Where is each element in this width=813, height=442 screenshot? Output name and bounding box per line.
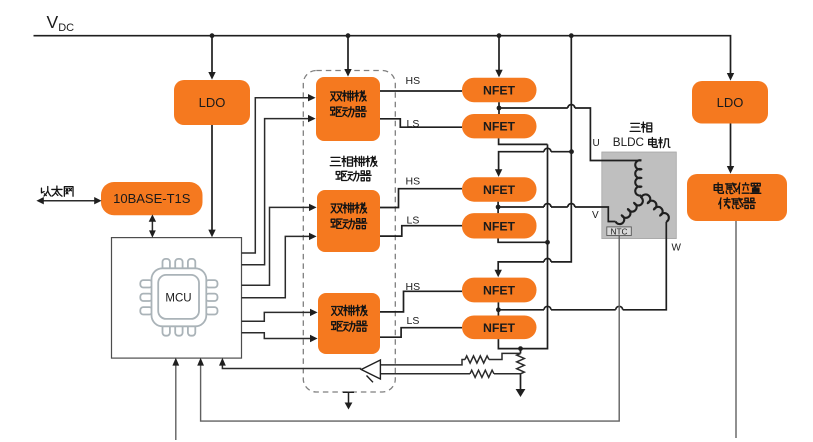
node bus-Q1 [497,33,502,38]
label driver U5b line1 双栅极 [331,203,367,214]
arrowhead into driver U4 top [344,69,351,77]
hops phase V [544,204,575,207]
hop drain tap over source bus [544,148,551,262]
svg-text:MCU: MCU [165,293,191,305]
wire LDO U3 to sensor U7 [730,124,732,167]
label group line1 三相栅极 [330,156,377,166]
WIRES_MAIN [34,36,731,390]
NFET Q5 box [462,278,537,303]
node shunt top [518,346,523,351]
node phase V [496,205,501,210]
wire R2 to shunt bottom [494,373,521,375]
NTC box [607,227,632,236]
gate driver U5b box [317,190,380,252]
svg-text:HS: HS [406,176,421,188]
wire LS2 gate [380,226,462,236]
arrowhead into MCU top from LDO [208,230,215,238]
NFET Q4 box [462,213,537,238]
LDO U3 box [692,81,768,124]
arrowheads 10base-mcu double [149,214,156,221]
wire MCU to driver2 LS input [242,236,310,297]
orange boxes [101,77,787,354]
arrowheads into MCU bottom [172,358,179,366]
NFET Q3 box [462,177,537,202]
ethernet double arrow wire [43,200,95,202]
resistor R2 [470,370,494,377]
10BASE-T1S U1 box [101,182,203,215]
wire MCU to driver3 HS input [242,312,311,321]
svg-text:VDC: VDC [47,12,75,34]
10base to mcu double arrow wire [151,221,153,232]
label driver U5b line2 驱动器 [331,219,367,229]
arrowhead into NFET Q3 [495,169,502,177]
gate driver U6 box [318,293,380,354]
wire MCU to driver1 HS input [242,98,309,253]
node phase W [496,307,501,312]
label motor line1 三相 [630,122,652,132]
wire sensor output down [735,221,737,438]
winding W coil [642,194,669,221]
svg-text:NFET: NFET [483,84,516,98]
labels U V W [592,138,682,254]
hops phase W [544,306,623,309]
amplifier U8 [361,360,380,382]
wire phase U node to motor [499,102,641,160]
dashed group box: three-phase gate driver [303,71,395,393]
svg-text:V: V [592,210,599,221]
ground GND2 arrow under shunt [516,389,526,397]
svg-text:NFET: NFET [483,321,516,335]
gate driver U4 box [316,77,380,141]
arrowheads into drivers from MCU [308,94,316,101]
wire drain bus x571 [498,36,571,270]
shunt resistor R3 [517,354,525,374]
wire R1 to shunt node [489,353,521,359]
shunt resistor R3 lead to ground [520,349,522,390]
svg-text:LDO: LDO [717,95,744,110]
MCU chip icon [140,259,217,336]
node source Q4 [545,240,550,245]
wire NTC to MCU [201,235,620,421]
label group line2 驱动器 [336,171,371,181]
arrowhead into NFET Q1 [495,70,502,78]
wire phase W node to motor [498,222,666,316]
svg-text:HS: HS [406,75,421,87]
wire NFET Q2 source to bus [499,138,548,144]
wire LS1 gate [380,119,462,127]
wire VDC to gate driver U4 [347,36,349,70]
wire LS3 gate [380,328,462,338]
arrowhead gnd1 [345,403,353,410]
svg-text:NFET: NFET [483,284,516,298]
label driver U4 line2 驱动器 [331,107,367,117]
wire drain tap to NFET Q3 [499,152,572,170]
motor M1 gray body [602,152,677,239]
resistor R1 [465,356,489,363]
label driver U6 line1 双栅极 [332,305,368,316]
wire MCU to driver2 HS input [242,207,310,285]
winding V coil [616,197,643,224]
MCU box U5 [112,238,242,359]
arrowhead into sensor U7 [727,166,734,174]
svg-text:NFET: NFET [483,183,516,197]
wire VDC to NFET Q1 drain [498,36,500,70]
gray analog wires [176,221,736,440]
hop phase U over drain bus [568,105,575,109]
wire MCU bottom input from edge [175,362,177,440]
svg-text:NTC: NTC [610,226,627,236]
sensor U7 box [687,174,787,221]
label driver U4 line1 双栅极 [331,91,367,102]
NFET Q2 box [462,114,537,138]
winding U coil [635,160,641,195]
NFET Q1 box [462,78,537,103]
NFET Q6 box [462,316,537,340]
svg-text:HS: HS [406,281,421,293]
labels HS/LS [406,75,421,327]
wire MCU to driver1 LS input [242,119,309,265]
wire NFET Q4 source to bus [498,239,547,243]
wire source bus x547 [521,144,548,348]
svg-text:LS: LS [407,315,420,327]
wire HS1 gate [380,90,462,92]
wire LDO U2 to MCU [211,125,213,230]
wire amp output to MCU [222,365,361,368]
label motor line2 电机 [649,138,670,148]
svg-text:NFET: NFET [483,219,516,233]
node bus-drainbus [569,33,574,38]
label driver U6 line2 驱动器 [332,321,368,331]
svg-text:NFET: NFET [483,120,516,134]
wire HS2 gate [380,189,462,208]
ground GND1 under dashed box [343,392,354,403]
label sensor line1 电感位置 [714,183,761,194]
wire phase V node to motor [498,202,615,222]
wire amp top input with resistor R1 [380,360,465,365]
label ethernet 以太网 [41,186,73,196]
motor windings [616,160,669,224]
node drain tap [569,149,574,154]
node phase U [497,106,502,111]
node bus-driver1 [346,33,351,38]
svg-text:LS: LS [407,215,420,227]
svg-text:LDO: LDO [199,95,226,110]
svg-text:10BASE-T1S: 10BASE-T1S [113,191,191,206]
node bus-LDO [210,33,215,38]
svg-text:BLDC: BLDC [613,136,644,149]
LDO U2 box [174,80,250,125]
wire VDC to LDO U2 [211,36,213,73]
arrowhead into NFET Q5 [495,270,502,278]
wire NFET Q6 source to shunt node [498,339,521,349]
arrowheads ethernet double [36,197,43,204]
svg-text:LS: LS [407,118,420,130]
svg-text:U: U [593,138,600,149]
arrowhead into LDO U2 [208,72,215,80]
wire VDC top bus [34,36,731,74]
svg-text:W: W [672,243,682,254]
label sensor line2 传感器 [719,198,756,209]
arrowhead into LDO U3 [727,73,734,81]
wire amp bottom input with resistor R2 [380,373,470,375]
wire MCU to driver3 LS input [242,333,311,339]
wire HS3 gate [380,291,462,312]
